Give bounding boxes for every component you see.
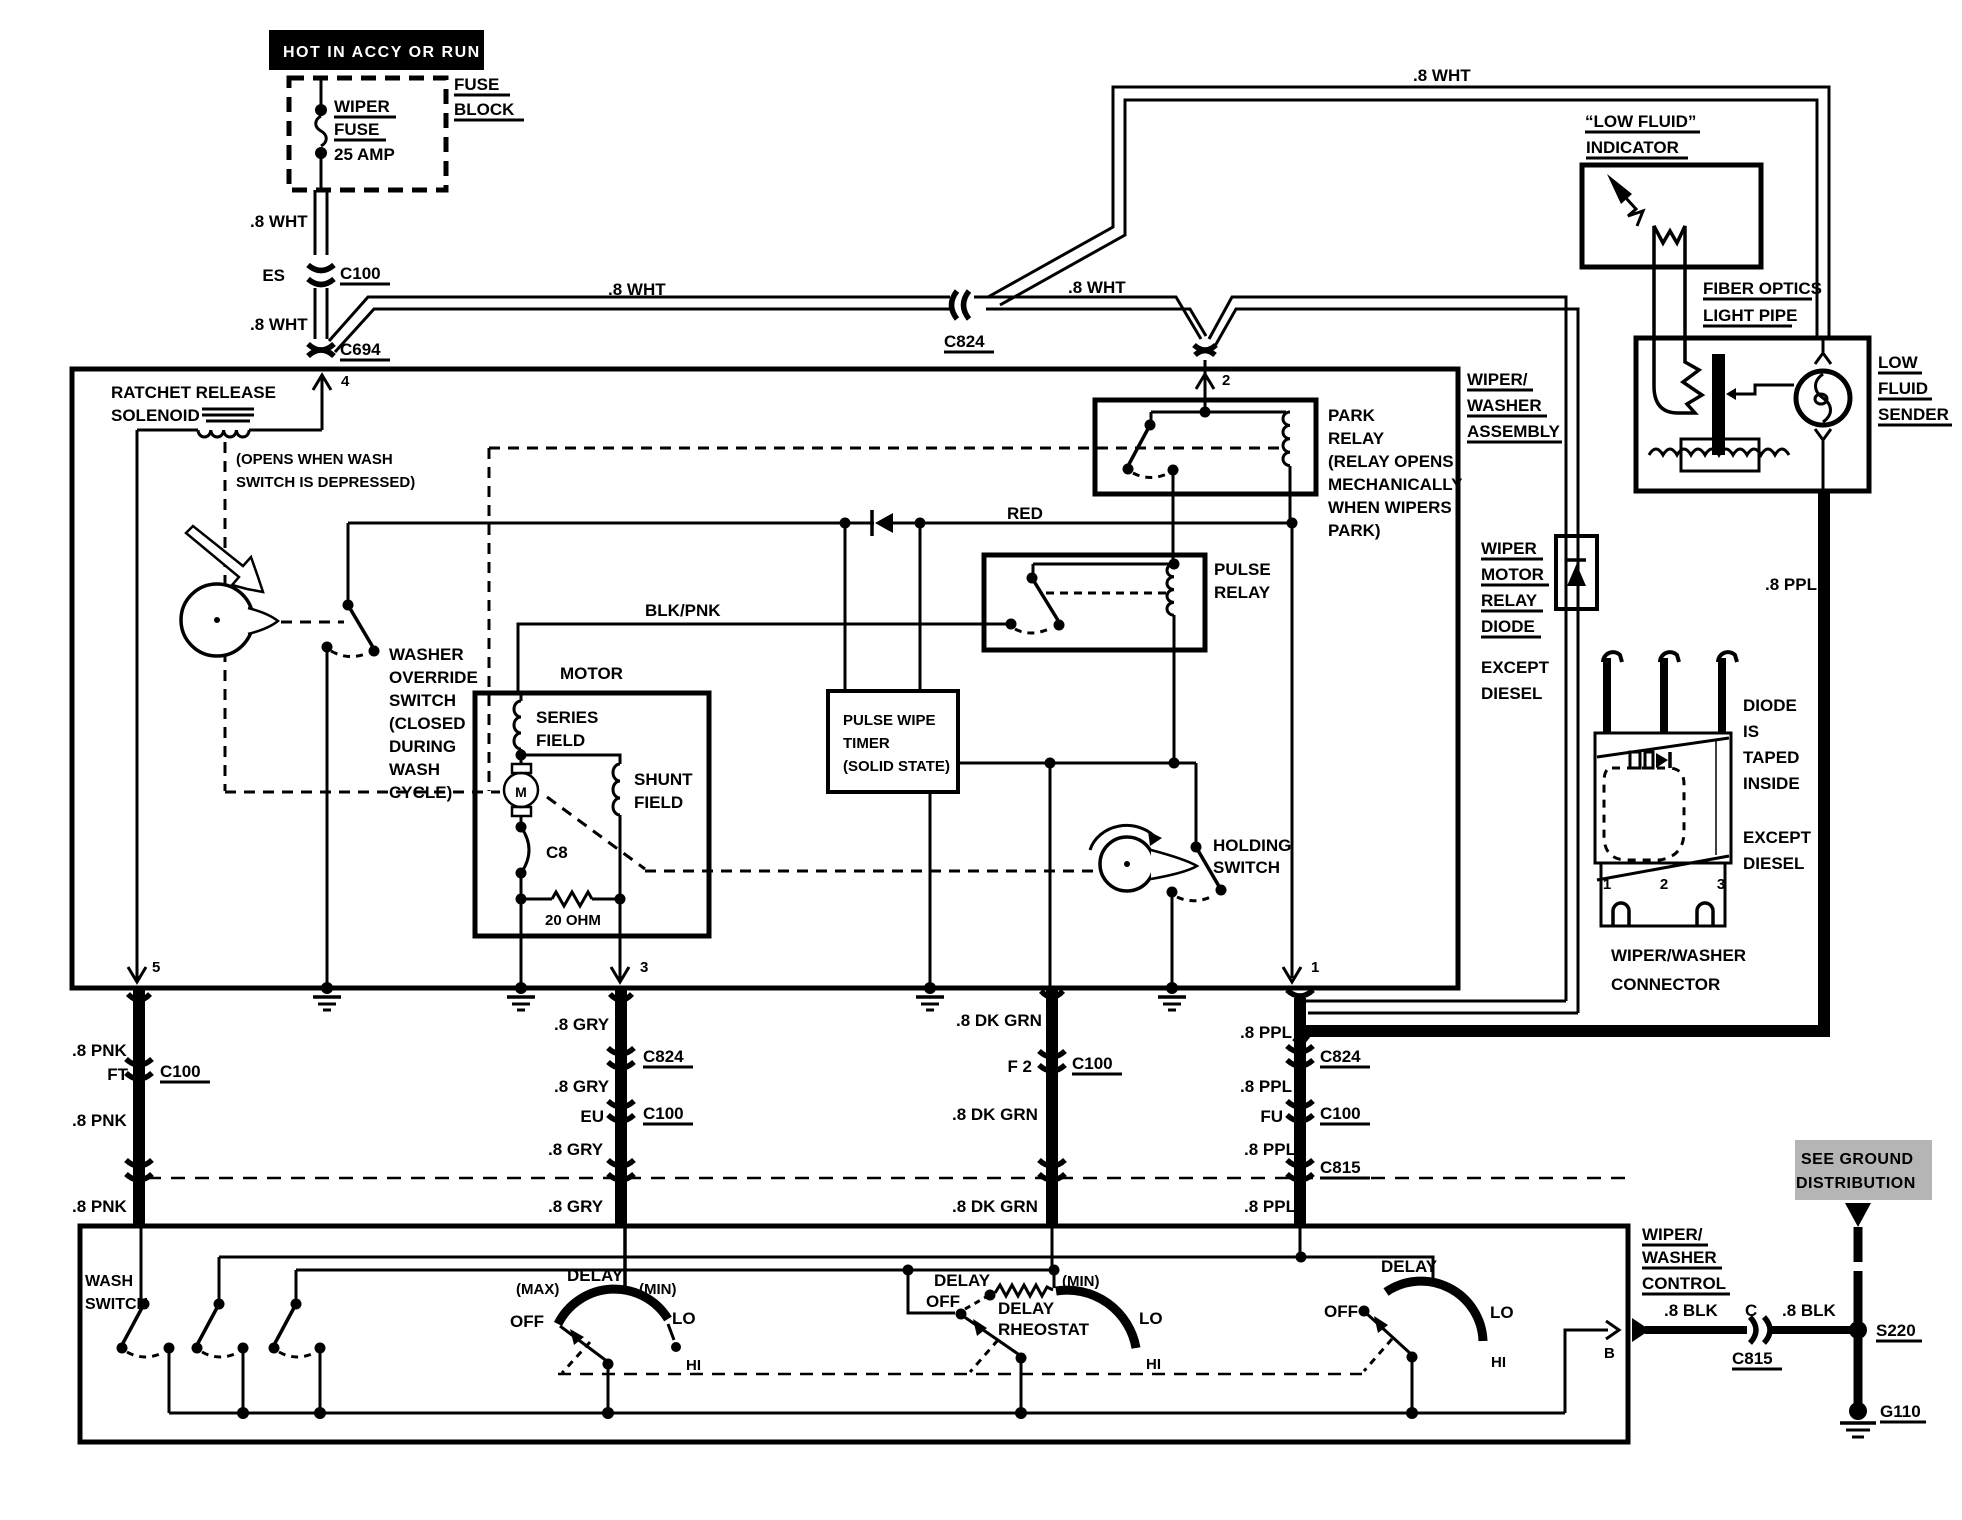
svg-text:(OPENS WHEN WASH: (OPENS WHEN WASH	[236, 451, 393, 468]
mech dashed line rheostats	[558, 1373, 1362, 1376]
(opens when wash switch is depressed) note	[236, 451, 415, 491]
.8 blk wire to s220	[1632, 1301, 1922, 1369]
svg-text:20 OHM: 20 OHM	[545, 912, 601, 929]
svg-text:FIELD: FIELD	[634, 793, 683, 812]
svg-text:.8 GRY: .8 GRY	[548, 1140, 604, 1159]
gry wire into rheostat 1	[623, 1226, 627, 1289]
svg-text:HOLDING: HOLDING	[1213, 836, 1291, 855]
shunt field	[521, 755, 693, 899]
svg-text:DELAY: DELAY	[998, 1299, 1055, 1318]
svg-text:C824: C824	[944, 332, 985, 351]
wiper/washer assembly label	[1467, 370, 1562, 442]
svg-text:.8 WHT: .8 WHT	[250, 212, 308, 231]
svg-text:25 AMP: 25 AMP	[334, 145, 395, 164]
svg-text:DELAY: DELAY	[1381, 1257, 1438, 1276]
svg-text:BLOCK: BLOCK	[454, 100, 515, 119]
svg-text:WASH: WASH	[85, 1273, 133, 1290]
svg-text:.8 GRY: .8 GRY	[554, 1015, 610, 1034]
svg-text:BLK/PNK: BLK/PNK	[645, 601, 721, 620]
svg-text:FLUID: FLUID	[1878, 379, 1928, 398]
svg-text:C824: C824	[643, 1047, 684, 1066]
svg-text:SHUNT: SHUNT	[634, 770, 693, 789]
wash switch label	[85, 1273, 148, 1313]
svg-text:SEE GROUND: SEE GROUND	[1801, 1151, 1914, 1168]
svg-text:INSIDE: INSIDE	[1743, 774, 1800, 793]
park relay box	[1095, 400, 1316, 494]
wire 1 ppl thick	[1240, 990, 1370, 1226]
rheostat 2 wiper blade	[963, 1316, 1027, 1413]
svg-text:CONTROL: CONTROL	[1642, 1274, 1726, 1293]
arrow from bulb to probe	[1726, 385, 1794, 400]
svg-text:FU: FU	[1260, 1107, 1283, 1126]
svg-text:FUSE: FUSE	[454, 75, 499, 94]
svg-text:C815: C815	[1732, 1349, 1773, 1368]
svg-text:SERIES: SERIES	[536, 708, 598, 727]
pulse wipe timer box	[828, 523, 958, 986]
svg-text:DURING: DURING	[389, 737, 456, 756]
series field	[514, 693, 598, 761]
svg-text:.8 PPL: .8 PPL	[1765, 575, 1817, 594]
wire .8 WHT C694 east run (double line)	[329, 280, 950, 352]
svg-text:C8: C8	[546, 843, 568, 862]
svg-text:HI: HI	[1491, 1354, 1506, 1371]
mech dash vertical to park relay run	[488, 448, 491, 791]
line A to rheostat 3	[219, 1252, 1433, 1282]
svg-text:WASHER: WASHER	[389, 645, 464, 664]
rheostat 1 arc	[510, 1266, 701, 1374]
svg-text:3: 3	[640, 959, 648, 976]
rheostat 3 arc	[1324, 1257, 1514, 1371]
wire 2 into assembly box	[1196, 360, 1230, 412]
fluid waves	[1649, 449, 1789, 455]
svg-text:.8 PNK: .8 PNK	[72, 1197, 128, 1216]
ground symbols on assembly box bottom	[313, 982, 1186, 1010]
red wire with diode	[348, 504, 1298, 536]
rheostat 1 wiper blade	[560, 1326, 614, 1413]
svg-text:WIPER: WIPER	[334, 97, 390, 116]
svg-text:DIESEL: DIESEL	[1481, 684, 1542, 703]
svg-text:(CLOSED: (CLOSED	[389, 714, 466, 733]
motor armature	[504, 755, 568, 899]
svg-text:RATCHET RELEASE: RATCHET RELEASE	[111, 383, 276, 402]
svg-text:PARK: PARK	[1328, 406, 1376, 425]
wash switch poles	[117, 1226, 326, 1413]
svg-text:DIODE: DIODE	[1481, 617, 1535, 636]
wire 4 arrow into box	[313, 373, 350, 430]
svg-text:TIMER: TIMER	[843, 735, 890, 752]
indicator lightning symbol	[1607, 174, 1643, 226]
rheostat 2 arc	[926, 1271, 1163, 1373]
svg-text:FIBER OPTICS: FIBER OPTICS	[1703, 279, 1822, 298]
svg-text:IS: IS	[1743, 722, 1759, 741]
svg-text:1: 1	[1603, 876, 1611, 893]
svg-text:HI: HI	[1146, 1356, 1161, 1373]
wash switch common bus	[169, 1407, 1565, 1419]
svg-text:LO: LO	[1139, 1309, 1163, 1328]
mech dash solenoid down through pump	[224, 442, 227, 791]
sender float body	[1681, 439, 1759, 471]
svg-text:WHEN WIPERS: WHEN WIPERS	[1328, 498, 1452, 517]
rheostat 3 wiper blade	[1359, 1306, 1418, 1414]
svg-text:SENDER: SENDER	[1878, 405, 1949, 424]
wht double line below diode to wire1 junction	[1296, 609, 1578, 1013]
pulse relay box	[984, 555, 1205, 650]
sender labels	[1878, 353, 1952, 425]
svg-text:WASHER: WASHER	[1467, 396, 1542, 415]
wire dk grn thick	[952, 988, 1122, 1226]
svg-text:F 2: F 2	[1007, 1057, 1032, 1076]
low fluid indicator labels	[1585, 112, 1700, 158]
connector C824 on wht run	[944, 291, 994, 352]
low fluid sender box	[1636, 338, 1869, 491]
svg-text:EXCEPT: EXCEPT	[1481, 658, 1550, 677]
svg-text:SOLENOID: SOLENOID	[111, 406, 200, 425]
fiber optics light pipe	[1652, 226, 1822, 413]
hot in accy or run feed box	[269, 30, 484, 70]
svg-text:EU: EU	[580, 1107, 604, 1126]
svg-text:C100: C100	[340, 264, 381, 283]
svg-text:INDICATOR: INDICATOR	[1586, 138, 1679, 157]
see ground distribution tag	[1795, 1140, 1932, 1437]
svg-text:5: 5	[152, 959, 160, 976]
dk grn into line B	[1051, 1226, 1054, 1270]
svg-text:.8 DK GRN: .8 DK GRN	[952, 1197, 1038, 1216]
mech dash pump to override switch	[281, 621, 344, 624]
svg-text:.8 PPL: .8 PPL	[1240, 1077, 1292, 1096]
motor box	[475, 693, 709, 936]
svg-text:ASSEMBLY: ASSEMBLY	[1467, 422, 1561, 441]
svg-text:.8 PNK: .8 PNK	[72, 1041, 128, 1060]
wiper fuse 25 amp	[315, 80, 396, 190]
svg-text:LIGHT PIPE: LIGHT PIPE	[1703, 306, 1797, 325]
svg-text:C694: C694	[340, 340, 381, 359]
c815 dashed bulkhead line	[147, 1177, 1630, 1180]
ppl into line A	[1299, 1226, 1302, 1257]
wire 3 exit arrow	[611, 936, 648, 982]
washer override switch	[322, 523, 380, 986]
holding switch	[1090, 825, 1291, 986]
svg-text:(RELAY OPENS: (RELAY OPENS	[1328, 452, 1454, 471]
svg-text:(MAX): (MAX)	[516, 1281, 559, 1298]
svg-text:C100: C100	[160, 1062, 201, 1081]
svg-text:C824: C824	[1320, 1047, 1361, 1066]
svg-text:WIPER: WIPER	[1481, 539, 1537, 558]
svg-text:“LOW FLUID”: “LOW FLUID”	[1585, 112, 1696, 131]
svg-text:DISTRIBUTION: DISTRIBUTION	[1796, 1175, 1916, 1192]
fuse block label	[454, 75, 524, 120]
sender bulb	[1796, 338, 1850, 491]
park relay label	[1328, 406, 1463, 540]
connector ES C100	[262, 264, 390, 285]
svg-text:.8 DK GRN: .8 DK GRN	[956, 1011, 1042, 1030]
svg-text:.8 WHT: .8 WHT	[1068, 278, 1126, 297]
connector C694	[308, 340, 390, 360]
svg-text:G110: G110	[1880, 1402, 1921, 1421]
svg-text:.8 BLK: .8 BLK	[1782, 1301, 1837, 1320]
svg-text:3: 3	[1717, 876, 1725, 893]
svg-text:SWITCH: SWITCH	[1213, 858, 1280, 877]
svg-text:2: 2	[1660, 876, 1668, 893]
svg-text:HOT IN ACCY OR RUN: HOT IN ACCY OR RUN	[283, 44, 481, 61]
svg-text:DELAY: DELAY	[934, 1271, 991, 1290]
park relay internals	[1123, 407, 1291, 563]
wiper/washer assembly box	[72, 369, 1458, 988]
svg-text:.8 DK GRN: .8 DK GRN	[952, 1105, 1038, 1124]
svg-text:TAPED: TAPED	[1743, 748, 1799, 767]
washer pump	[181, 526, 278, 656]
svg-text:4: 4	[341, 373, 350, 390]
svg-text:MECHANICALLY: MECHANICALLY	[1328, 475, 1463, 494]
blk/pnk wire pulse relay to motor	[518, 601, 1011, 693]
wiper motor relay diode component	[1556, 536, 1597, 609]
svg-text:WIPER/: WIPER/	[1467, 370, 1528, 389]
sender probe bar	[1712, 354, 1725, 455]
svg-text:1: 1	[1311, 959, 1319, 976]
svg-text:PULSE: PULSE	[1214, 560, 1271, 579]
wire .8 WHT fuse to C100 (double line)	[250, 190, 327, 255]
ratchet release solenoid	[111, 383, 322, 437]
svg-text:RELAY: RELAY	[1214, 583, 1271, 602]
svg-text:WASHER: WASHER	[1642, 1248, 1717, 1267]
svg-text:B: B	[1604, 1345, 1615, 1362]
svg-text:RELAY: RELAY	[1481, 591, 1538, 610]
svg-text:.8 PPL: .8 PPL	[1244, 1197, 1296, 1216]
svg-text:DELAY: DELAY	[567, 1266, 624, 1285]
svg-text:WASH: WASH	[389, 760, 440, 779]
svg-text:DIODE: DIODE	[1743, 696, 1797, 715]
wiper/washer connector prongs	[1603, 652, 1737, 733]
svg-text:C815: C815	[1320, 1158, 1361, 1177]
wiper/washer connector caption	[1611, 946, 1746, 994]
svg-text:OVERRIDE: OVERRIDE	[389, 668, 478, 687]
svg-text:CYCLE): CYCLE)	[389, 783, 452, 802]
svg-text:PULSE WIPE: PULSE WIPE	[843, 712, 936, 729]
low fluid indicator box	[1582, 165, 1761, 267]
svg-text:PARK): PARK)	[1328, 521, 1381, 540]
svg-text:.8 WHT: .8 WHT	[608, 280, 666, 299]
svg-text:C100: C100	[1072, 1054, 1113, 1073]
pulse relay internals	[1006, 559, 1180, 764]
svg-text:.8 PPL: .8 PPL	[1244, 1140, 1296, 1159]
svg-text:WIPER/: WIPER/	[1642, 1225, 1703, 1244]
svg-text:FUSE: FUSE	[334, 120, 379, 139]
svg-text:HI: HI	[686, 1357, 701, 1374]
svg-text:S220: S220	[1876, 1321, 1916, 1340]
svg-text:LO: LO	[672, 1309, 696, 1328]
svg-text:C100: C100	[643, 1104, 684, 1123]
svg-text:MOTOR: MOTOR	[560, 664, 623, 683]
heavy ppl wire from sender to C824 elbow	[1297, 491, 1830, 1044]
wiper/washer connector lower shell	[1601, 863, 1725, 926]
svg-text:.8 GRY: .8 GRY	[554, 1077, 610, 1096]
exit B wire	[1565, 1321, 1619, 1413]
svg-text:(SOLID STATE): (SOLID STATE)	[843, 758, 950, 775]
svg-text:.8 WHT: .8 WHT	[1413, 66, 1471, 85]
svg-text:M: M	[515, 784, 527, 800]
svg-text:.8 PPL: .8 PPL	[1240, 1023, 1292, 1042]
svg-text:(MIN): (MIN)	[1062, 1273, 1100, 1290]
svg-text:FIELD: FIELD	[536, 731, 585, 750]
wiper/washer connector body with taped diode	[1595, 733, 1731, 880]
mech dash motor to holding switch	[547, 797, 1097, 871]
svg-text:RHEOSTAT: RHEOSTAT	[998, 1320, 1090, 1339]
svg-text:ES: ES	[262, 266, 285, 285]
svg-text:OFF: OFF	[1324, 1302, 1358, 1321]
rheostat 2 delay off contact and resistor	[908, 1270, 1054, 1320]
svg-text:EXCEPT: EXCEPT	[1743, 828, 1812, 847]
svg-text:LO: LO	[1490, 1303, 1514, 1322]
wire .8 WHT C824 to V-dip connector (double line)	[974, 278, 1206, 339]
wire 1 vertical from red junction	[1283, 523, 1319, 982]
svg-text:OFF: OFF	[510, 1312, 544, 1331]
svg-text:(MIN): (MIN)	[639, 1281, 677, 1298]
svg-text:RED: RED	[1007, 504, 1043, 523]
svg-text:.8 BLK: .8 BLK	[1664, 1301, 1719, 1320]
wire 3 gry thick	[548, 988, 693, 1226]
20 ohm resistor	[516, 892, 626, 986]
svg-text:CONNECTOR: CONNECTOR	[1611, 975, 1720, 994]
connector side labels	[1743, 696, 1812, 873]
svg-text:.8 PNK: .8 PNK	[72, 1111, 128, 1130]
svg-text:C100: C100	[1320, 1104, 1361, 1123]
svg-text:.8 GRY: .8 GRY	[548, 1197, 604, 1216]
wiper/washer control label	[1642, 1225, 1730, 1294]
connector at V-dip (to wire 2)	[1194, 297, 1578, 534]
wiper motor relay diode labels	[1481, 539, 1550, 703]
svg-text:SWITCH IS DEPRESSED): SWITCH IS DEPRESSED)	[236, 474, 415, 491]
wire 5 pnk thick	[72, 988, 210, 1226]
svg-text:OFF: OFF	[926, 1292, 960, 1311]
washer override switch label	[389, 645, 478, 802]
wire .8 WHT C100 to C694 (double line)	[250, 288, 327, 339]
wire 5 left vertical	[128, 430, 160, 982]
wiper/washer control box	[80, 1226, 1628, 1442]
svg-text:LOW: LOW	[1878, 353, 1919, 372]
mech dash run to park relay	[489, 447, 1284, 450]
svg-text:.8 WHT: .8 WHT	[250, 315, 308, 334]
wht branch up to top run (double line)	[988, 66, 1829, 336]
svg-text:WIPER/WASHER: WIPER/WASHER	[1611, 946, 1746, 965]
pulse relay label	[1214, 560, 1271, 602]
svg-text:MOTOR: MOTOR	[1481, 565, 1544, 584]
fuse block dashed box	[289, 78, 446, 190]
line B to dk grn junction	[296, 1265, 1060, 1276]
svg-text:SWITCH: SWITCH	[389, 691, 456, 710]
svg-text:RELAY: RELAY	[1328, 429, 1385, 448]
timer output to holding switch	[958, 758, 1196, 987]
svg-text:DIESEL: DIESEL	[1743, 854, 1804, 873]
svg-text:2: 2	[1222, 372, 1230, 389]
mech dash to motor	[225, 791, 500, 794]
